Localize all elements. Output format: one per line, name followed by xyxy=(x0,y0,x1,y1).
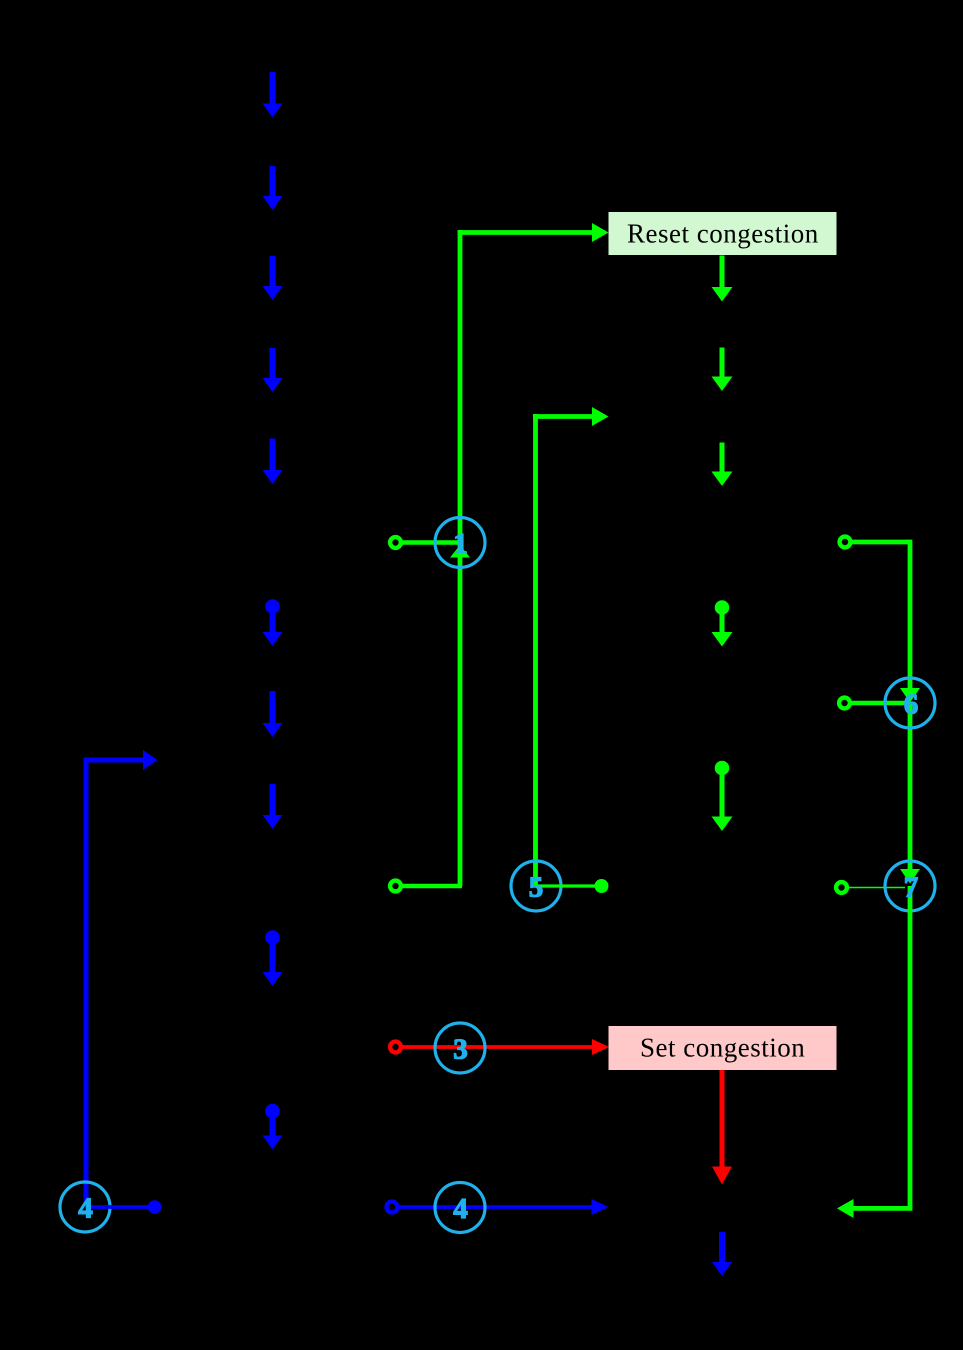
wire green flow arrow D1 with start dot xyxy=(712,600,733,646)
svg-text:6: 6 xyxy=(904,689,919,721)
wire blue flow arrow A7 xyxy=(263,691,283,737)
wire blue bottom row arrow through node 4 xyxy=(398,1199,609,1215)
svg-text:4: 4 xyxy=(78,1193,93,1225)
wire green elbow from port down to node 6 xyxy=(851,540,921,703)
node 3 circle xyxy=(435,1023,485,1073)
node small blue port circle bottom row xyxy=(387,1202,398,1213)
wire green thin from port to node 7 xyxy=(847,887,905,889)
node small green port circle top right xyxy=(840,537,851,548)
box Set congestion xyxy=(609,1026,837,1070)
node 5 circle xyxy=(511,861,561,911)
node small green port circle at bottom of goto line xyxy=(390,881,401,892)
node 7 circle xyxy=(885,861,935,911)
wire blue flow arrow A5 xyxy=(263,439,283,485)
wire blue from node 4 left to bullet xyxy=(85,1200,161,1214)
svg-text:Reset congestion: Reset congestion xyxy=(627,219,819,249)
svg-text:3: 3 xyxy=(453,1034,468,1066)
box Reset congestion xyxy=(609,212,837,255)
wire red arrow down from Set congestion xyxy=(712,1070,732,1185)
wire blue goto elbow from node 4 left up to arrow xyxy=(84,750,158,1207)
wire green flow arrow G1 below Reset box xyxy=(712,256,733,302)
wire blue flow arrow A8 xyxy=(263,784,283,829)
node small green port circle at node 7 row xyxy=(836,882,847,893)
svg-text:Set congestion: Set congestion xyxy=(640,1033,805,1063)
node 4 right circle xyxy=(435,1183,485,1233)
wire blue bottom arrow xyxy=(712,1232,732,1276)
wire green flow arrow D2 with start dot xyxy=(712,761,733,831)
svg-text:7: 7 xyxy=(904,872,919,904)
node 6 circle xyxy=(885,678,935,728)
svg-text:5: 5 xyxy=(529,872,544,904)
wire blue flow arrow A4 xyxy=(263,348,283,392)
wire green flow arrow G3 xyxy=(712,443,733,487)
wire green from port to node 6 xyxy=(850,701,908,705)
wire blue flow arrow A6 with start dot xyxy=(263,599,283,646)
node 4 left circle xyxy=(60,1182,110,1232)
wire green flow arrow G2 xyxy=(712,348,733,392)
wire green goto elbow from node 5 up right xyxy=(533,407,609,886)
wire blue flow arrow A3 xyxy=(263,256,283,300)
wire green from node 5 to bullet xyxy=(536,879,609,893)
wire green from port to node 1 xyxy=(401,540,460,544)
node small green port circle at node 1 row xyxy=(390,537,401,548)
wire blue flow arrow A10 with start dot xyxy=(263,1104,283,1150)
wire blue flow arrow A2 xyxy=(263,166,283,210)
wire green from node 7 down and left arrow xyxy=(837,886,912,1218)
wire green up arrowhead at node 1 xyxy=(450,545,470,558)
wire blue flow arrow A9 with start dot xyxy=(263,930,283,986)
svg-text:1: 1 xyxy=(453,528,468,560)
node small green port circle at node 6 row xyxy=(839,698,850,709)
wire red arrow into Set congestion box through node 3 xyxy=(401,1039,609,1055)
node small red port circle set row xyxy=(390,1042,401,1053)
svg-text:4: 4 xyxy=(453,1193,468,1225)
wire green from node 6 down to node 7 xyxy=(900,703,920,884)
wire blue flow arrow A1 xyxy=(263,72,283,118)
node 1 circle xyxy=(435,518,485,568)
wire green from port to goto line corner xyxy=(401,884,462,888)
wire green goto line up from bottom through node 1 into Reset box xyxy=(458,223,609,886)
